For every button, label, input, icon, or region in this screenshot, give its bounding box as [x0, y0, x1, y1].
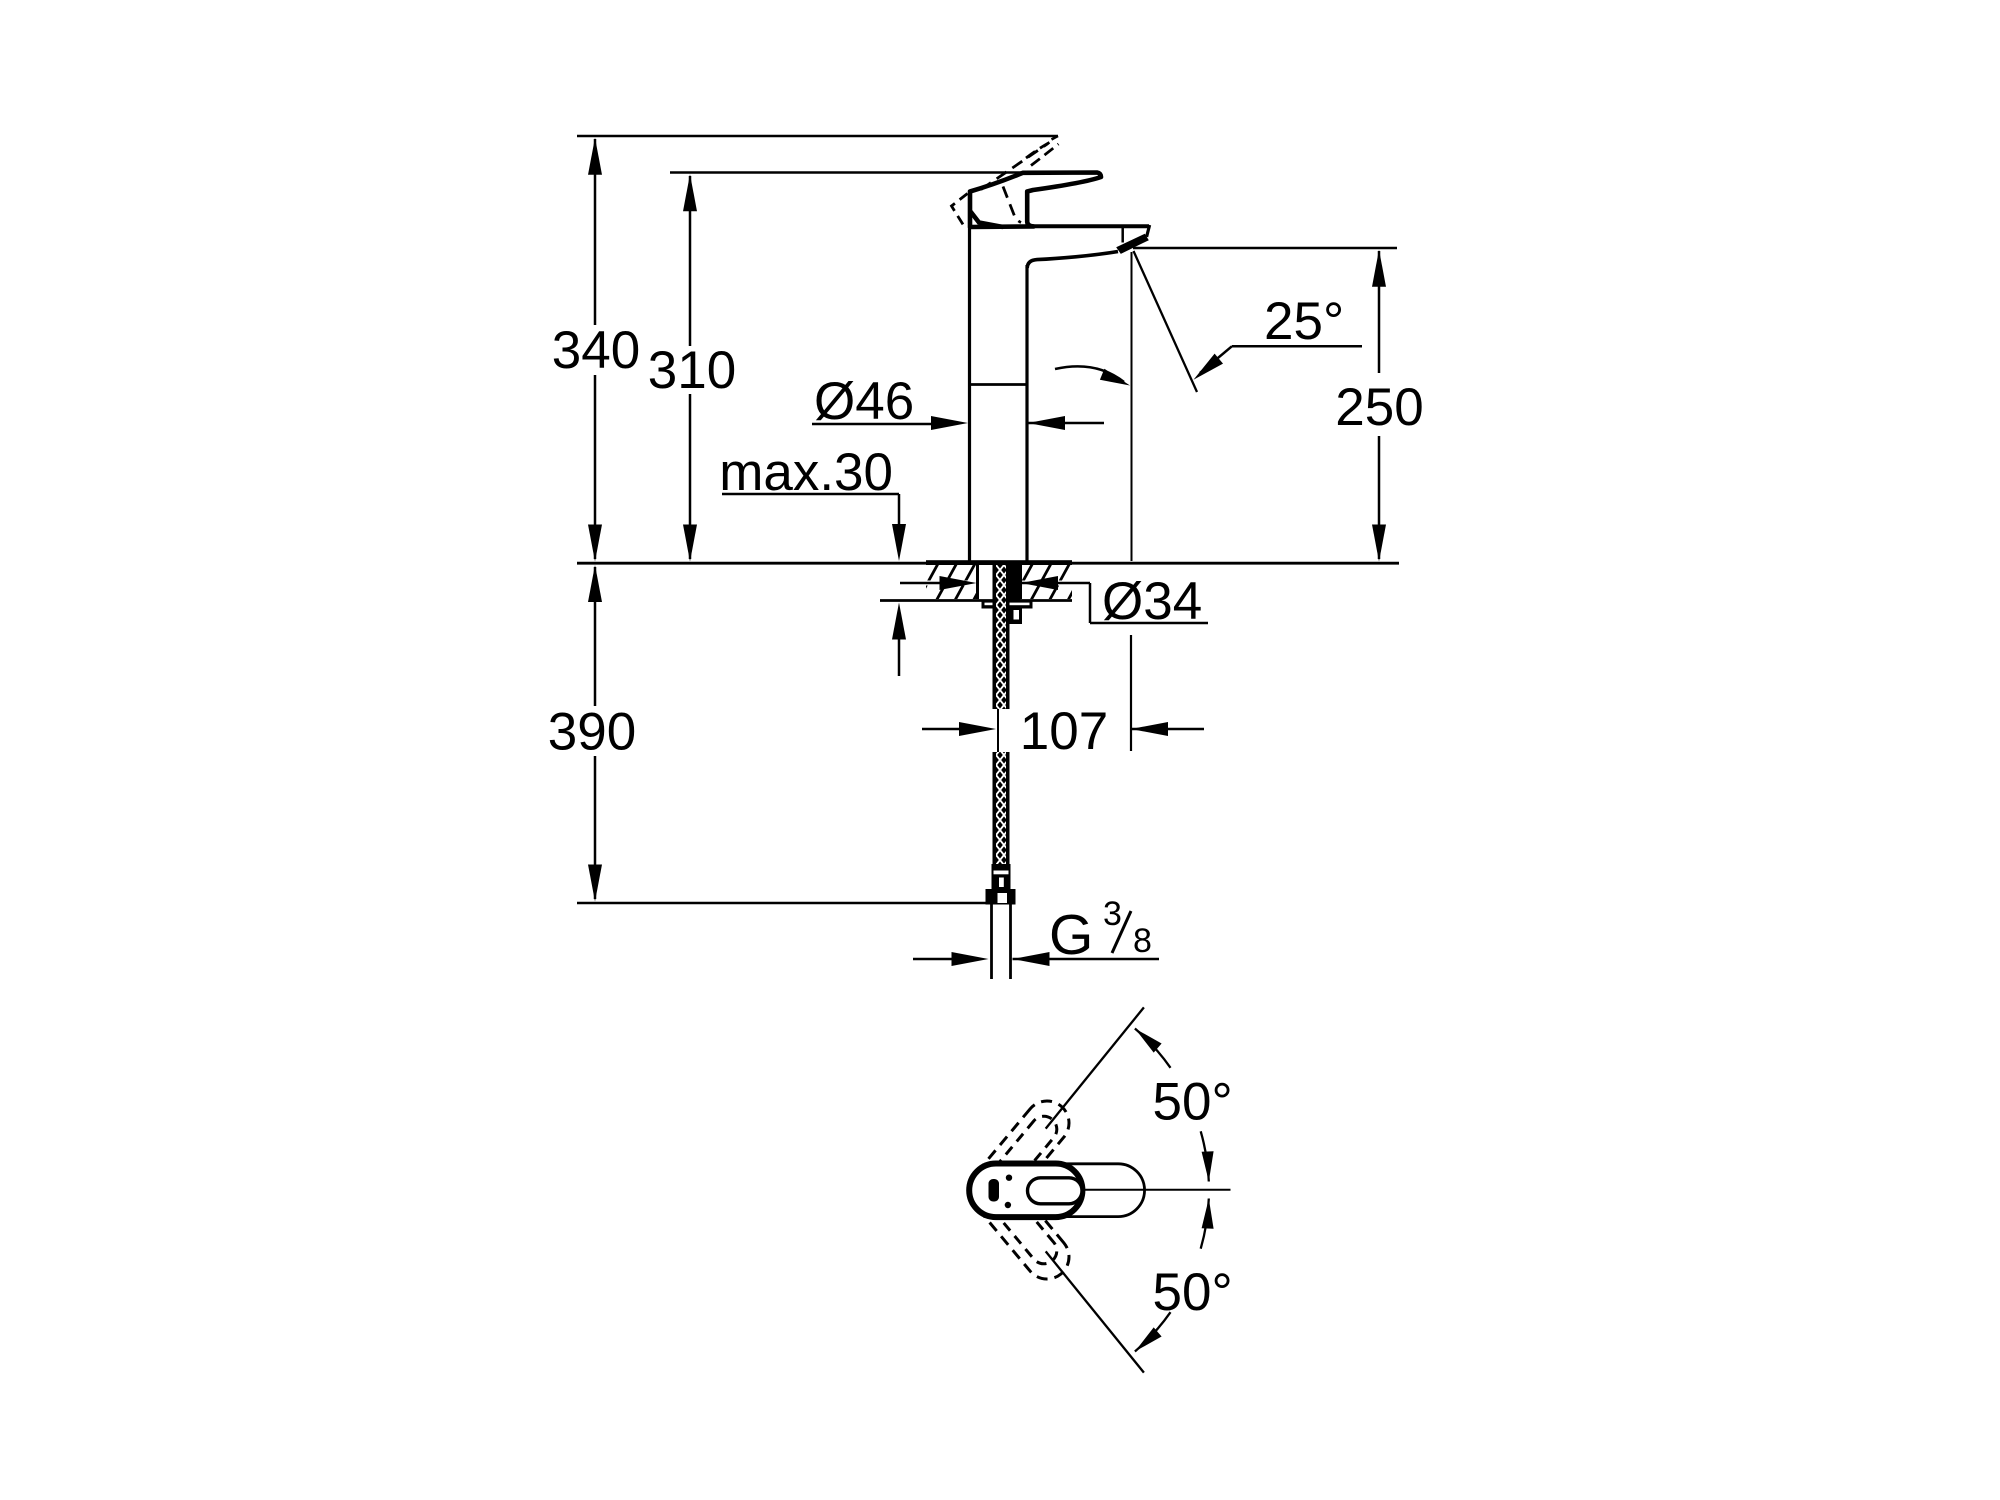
svg-text:107: 107 — [1020, 702, 1108, 761]
svg-text:Ø46: Ø46 — [814, 372, 914, 431]
svg-text:Ø34: Ø34 — [1102, 572, 1202, 631]
svg-text:3: 3 — [1103, 895, 1122, 933]
svg-text:50°: 50° — [1153, 1073, 1233, 1132]
svg-text:390: 390 — [548, 703, 636, 762]
svg-text:8: 8 — [1133, 922, 1152, 960]
svg-text:310: 310 — [648, 341, 736, 400]
svg-text:G: G — [1049, 903, 1093, 967]
svg-text:340: 340 — [552, 321, 640, 380]
svg-text:250: 250 — [1335, 378, 1423, 437]
svg-text:50°: 50° — [1153, 1263, 1233, 1322]
svg-text:25°: 25° — [1264, 292, 1344, 351]
